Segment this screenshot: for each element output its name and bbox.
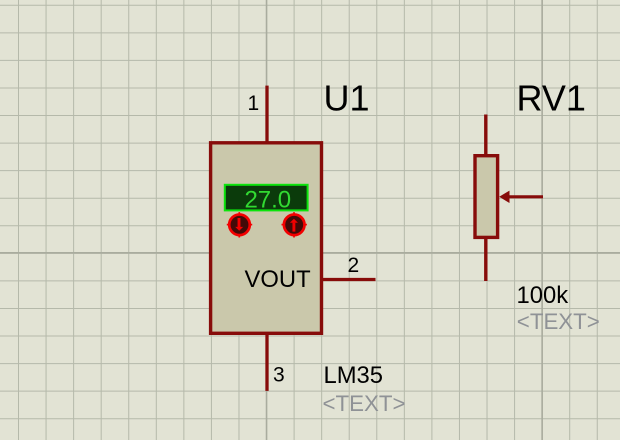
svg-text:3: 3 (273, 364, 285, 387)
button up (increase) (282, 212, 307, 237)
wire RV1 bottom pin (484, 237, 487, 281)
sensor U1 LM35 body (211, 143, 322, 333)
svg-text:<TEXT>: <TEXT> (517, 309, 600, 334)
wire U1 pin 3 (265, 334, 268, 391)
svg-text:LM35: LM35 (324, 362, 384, 389)
svg-text:100k: 100k (517, 282, 569, 309)
wire U1 pin 1 (265, 86, 268, 143)
svg-text:VOUT: VOUT (245, 266, 311, 293)
svg-text:<TEXT>: <TEXT> (323, 391, 406, 416)
potentiometer RV1 body (475, 156, 498, 238)
LCD display of U1 (225, 185, 308, 211)
button down (decrease) (227, 212, 252, 237)
svg-text:U1: U1 (324, 78, 370, 119)
svg-text:2: 2 (348, 254, 360, 277)
svg-text:RV1: RV1 (517, 78, 586, 119)
svg-text:27.0: 27.0 (244, 187, 291, 214)
svg-text:1: 1 (248, 92, 260, 115)
wire RV1 top pin (484, 115, 487, 156)
wire U1 pin 2 (322, 278, 376, 281)
wiper arrow of RV1 (499, 191, 543, 203)
